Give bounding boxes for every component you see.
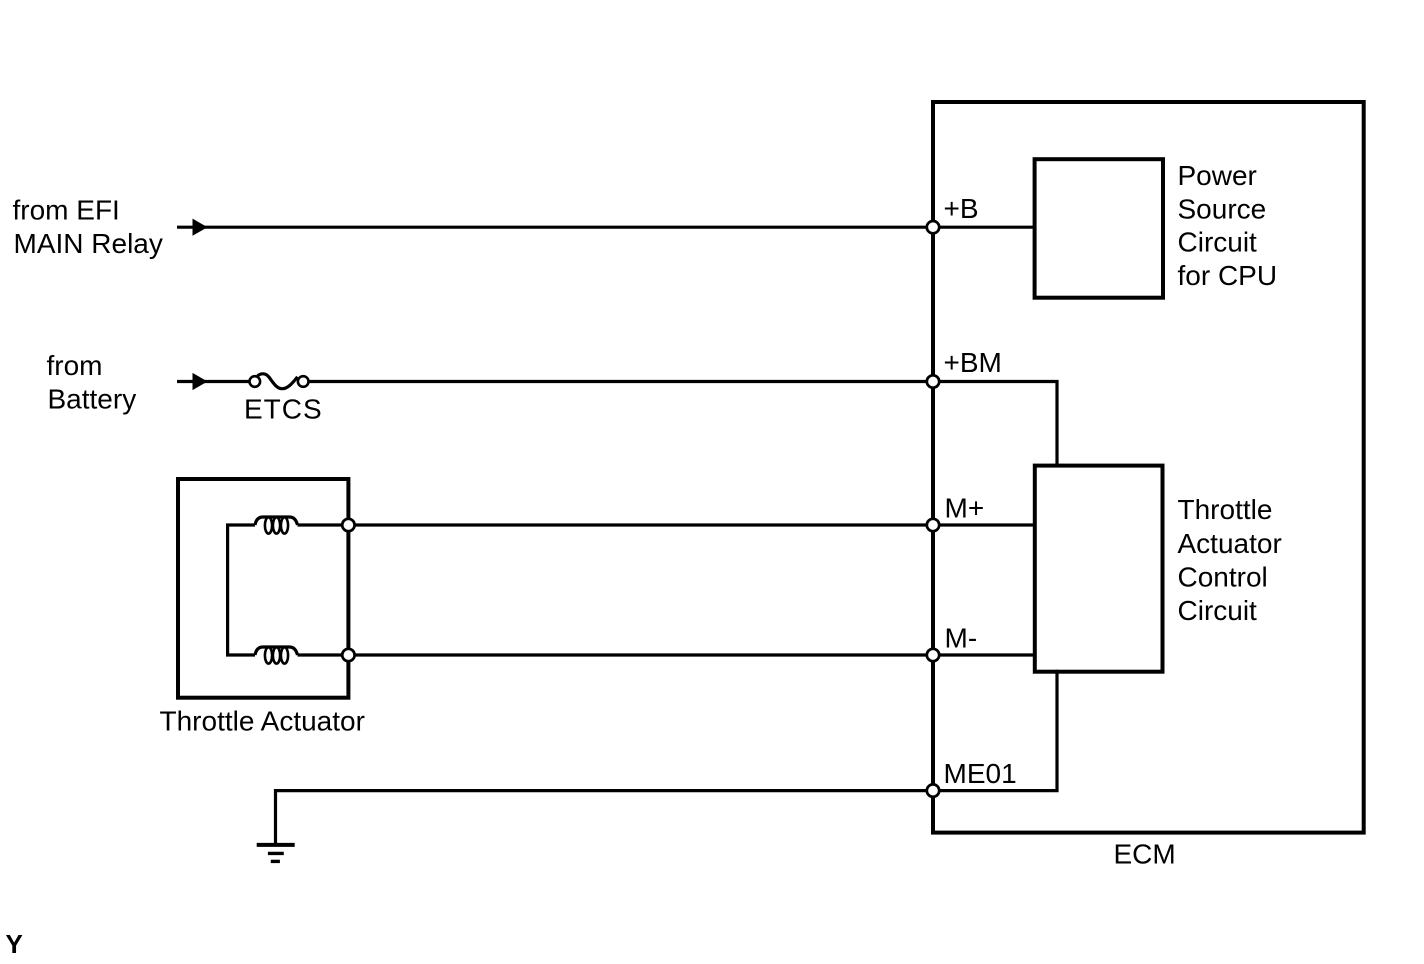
svg-text:Power: Power <box>1178 160 1257 191</box>
wire +B to power source circuit <box>933 226 1035 229</box>
node on throttle actuator lower terminal <box>342 649 354 661</box>
svg-text:+BM: +BM <box>944 347 1002 378</box>
svg-text:Circuit: Circuit <box>1178 595 1258 626</box>
wire from Battery to fuse <box>177 380 249 383</box>
arrowhead on Battery wire <box>193 373 208 390</box>
node M- <box>927 649 939 661</box>
coil L2 lower motor winding <box>255 647 298 664</box>
ground wire from ME01 <box>276 791 934 844</box>
svg-text:ETCS: ETCS <box>244 394 323 425</box>
wire ME01 up to control circuit <box>933 670 1057 791</box>
svg-text:for CPU: for CPU <box>1178 260 1278 291</box>
node ME01 <box>927 784 939 796</box>
ECM box <box>933 102 1364 833</box>
node +B <box>927 221 939 233</box>
svg-text:from: from <box>47 350 103 381</box>
svg-text:Y: Y <box>6 929 23 959</box>
svg-text:+B: +B <box>944 193 979 224</box>
node +BM <box>927 375 939 387</box>
fuse ETCS wave element <box>258 374 298 389</box>
wire upper winding to node M+ <box>298 523 934 526</box>
svg-text:Throttle Actuator: Throttle Actuator <box>160 706 365 737</box>
power source circuit box U1 <box>1035 159 1163 298</box>
svg-text:Control: Control <box>1178 561 1268 592</box>
wire from EFI MAIN Relay to +B <box>177 226 933 229</box>
svg-text:Throttle: Throttle <box>1178 494 1273 525</box>
node on throttle actuator upper terminal <box>342 519 354 531</box>
arrowhead on EFI MAIN Relay wire <box>193 219 208 236</box>
svg-text:ECM: ECM <box>1114 838 1176 869</box>
wire M- into control circuit <box>933 653 1035 656</box>
svg-text:ME01: ME01 <box>944 758 1017 789</box>
ground symbol <box>257 845 295 862</box>
svg-text:Circuit: Circuit <box>1178 227 1258 258</box>
coil L1 upper motor winding <box>255 517 298 534</box>
fuse ETCS left terminal circle <box>250 376 261 387</box>
wire M+ into control circuit <box>933 523 1035 526</box>
fuse ETCS right terminal circle <box>298 376 309 387</box>
svg-text:from EFI: from EFI <box>13 195 120 226</box>
svg-text:M+: M+ <box>945 492 985 523</box>
wire +BM into throttle actuator control circuit <box>933 382 1057 466</box>
svg-text:M-: M- <box>945 622 978 653</box>
svg-text:MAIN Relay: MAIN Relay <box>14 228 163 259</box>
svg-text:Actuator: Actuator <box>1178 528 1282 559</box>
throttle actuator box <box>178 479 348 698</box>
svg-text:Source: Source <box>1178 193 1267 224</box>
wire from fuse to +BM <box>310 380 934 383</box>
node M+ <box>927 519 939 531</box>
wire inner loop of throttle actuator <box>228 525 255 655</box>
throttle actuator control circuit box U2 <box>1035 466 1163 672</box>
svg-text:Battery: Battery <box>48 384 137 415</box>
wire lower winding to node M- <box>298 653 934 656</box>
